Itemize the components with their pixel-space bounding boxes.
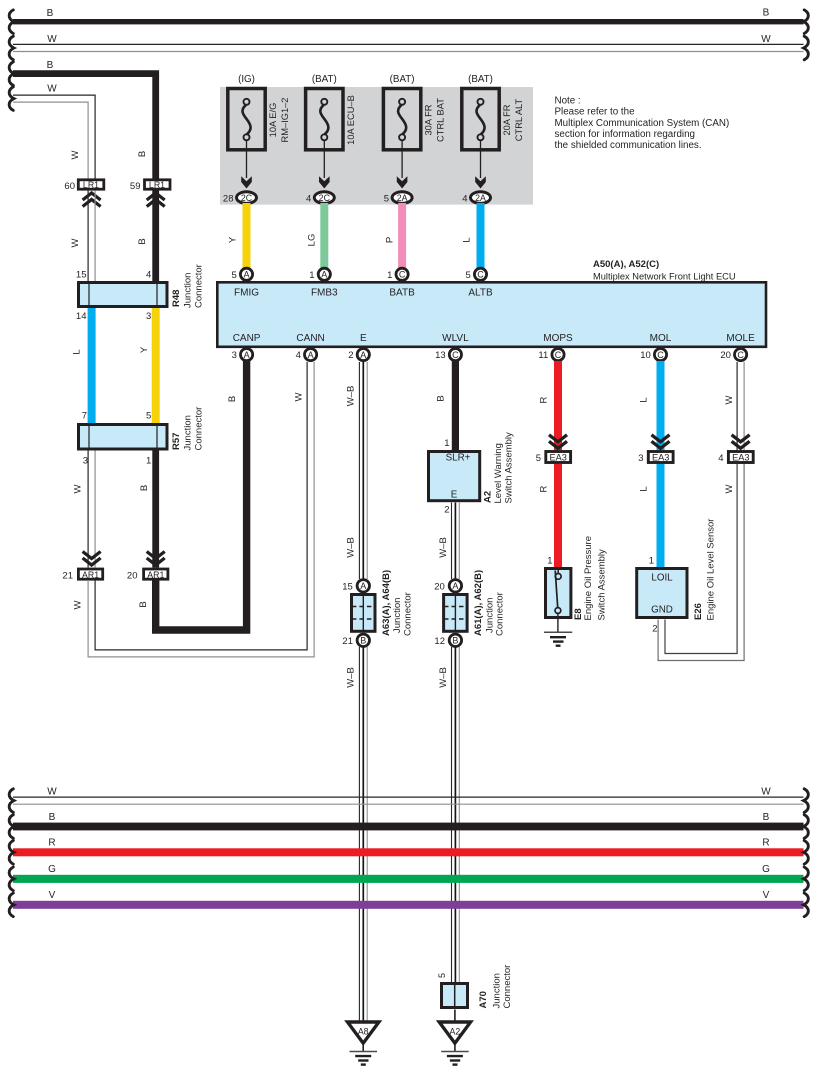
svg-text:2C: 2C xyxy=(319,193,331,203)
svg-text:B: B xyxy=(138,601,149,607)
svg-text:R: R xyxy=(762,838,769,849)
svg-text:Connector: Connector xyxy=(495,592,506,636)
svg-text:A2: A2 xyxy=(483,491,494,503)
level warning switch A2 SLR+ box xyxy=(429,432,515,504)
svg-text:MOLE: MOLE xyxy=(726,333,755,344)
page break squiggle B bus right xyxy=(804,10,809,34)
wire W to LR1 pin 60 xyxy=(13,84,95,180)
svg-text:A70: A70 xyxy=(478,991,489,1008)
connector EA3 pin 5 xyxy=(536,452,571,465)
svg-text:SLR+: SLR+ xyxy=(446,453,471,464)
connector AR1 pin 21 xyxy=(62,569,102,582)
svg-text:(BAT): (BAT) xyxy=(312,74,337,85)
terminal C MOL xyxy=(654,349,666,361)
svg-text:W–B: W–B xyxy=(438,537,449,558)
svg-text:L: L xyxy=(462,237,473,242)
svg-text:15: 15 xyxy=(76,270,87,281)
wire L from R48 to R57 xyxy=(88,308,96,423)
svg-text:20: 20 xyxy=(720,350,731,361)
svg-text:Switch Assembly: Switch Assembly xyxy=(504,432,515,504)
svg-text:2A: 2A xyxy=(475,193,486,203)
svg-text:W–B: W–B xyxy=(438,667,449,688)
wire B WLVL to SLR+ xyxy=(452,361,459,450)
svg-text:Connector: Connector xyxy=(194,264,205,308)
svg-text:V: V xyxy=(49,890,56,901)
svg-text:L: L xyxy=(72,349,83,354)
note text xyxy=(555,96,730,152)
svg-text:C: C xyxy=(399,270,406,280)
svg-text:R: R xyxy=(539,485,550,492)
svg-text:5: 5 xyxy=(466,270,471,281)
svg-text:(BAT): (BAT) xyxy=(468,74,493,85)
page break squiggle V bottom right xyxy=(804,893,809,917)
svg-text:A: A xyxy=(360,350,366,360)
svg-text:G: G xyxy=(762,864,770,875)
wire W EA3 to LOIL GND xyxy=(665,464,737,654)
page break squiggle W bus left xyxy=(9,36,14,60)
svg-text:MOL: MOL xyxy=(650,333,672,344)
svg-text:28: 28 xyxy=(223,193,234,204)
svg-text:10: 10 xyxy=(640,350,651,361)
wire W-B SLR+ to A61 xyxy=(451,503,453,580)
svg-text:CTRL ALT: CTRL ALT xyxy=(514,99,524,142)
ground symbol E8 xyxy=(544,632,572,645)
svg-text:E26: E26 xyxy=(693,603,704,620)
wire L fuse to ALTB xyxy=(477,203,485,268)
svg-text:section for information regard: section for information regarding xyxy=(555,129,696,140)
connector LR1 pin 59 xyxy=(130,180,170,192)
svg-text:B: B xyxy=(137,238,148,244)
svg-text:LOIL: LOIL xyxy=(651,573,673,584)
svg-text:2: 2 xyxy=(348,350,353,361)
svg-text:12: 12 xyxy=(434,636,445,647)
svg-text:LR1: LR1 xyxy=(149,180,165,190)
svg-text:60: 60 xyxy=(64,181,75,192)
svg-text:B: B xyxy=(47,8,54,19)
svg-text:A: A xyxy=(452,581,458,591)
junction connector R57 xyxy=(79,407,205,451)
wire B from R57 to AR1 pin 20 xyxy=(152,451,159,568)
svg-text:L: L xyxy=(639,486,650,491)
wire A70 to ground A2 xyxy=(454,1010,456,1021)
svg-text:C: C xyxy=(657,350,664,360)
fuse 10A E/G RM-IG1-2 (IG) xyxy=(223,74,290,204)
wire L EA3 to LOIL xyxy=(657,464,665,567)
svg-text:C: C xyxy=(737,350,744,360)
svg-text:15: 15 xyxy=(342,582,353,593)
svg-text:2C: 2C xyxy=(241,193,253,203)
svg-text:A: A xyxy=(243,270,249,280)
svg-text:Engine Oil Pressure: Engine Oil Pressure xyxy=(583,536,594,620)
svg-text:C: C xyxy=(477,270,484,280)
svg-text:A: A xyxy=(244,350,250,360)
svg-text:W: W xyxy=(724,395,735,404)
page break squiggle B bus left xyxy=(9,10,14,34)
ground symbol A8 xyxy=(350,1044,378,1065)
svg-text:B: B xyxy=(139,485,150,491)
svg-text:WLVL: WLVL xyxy=(442,333,469,344)
svg-text:W: W xyxy=(73,484,84,493)
terminal B A63 xyxy=(357,634,369,646)
wire W top bus xyxy=(13,34,804,52)
svg-text:R48: R48 xyxy=(171,290,182,307)
page break squiggle W bottom right xyxy=(804,789,809,813)
wire L MOL to EA3 xyxy=(657,361,665,450)
svg-text:21: 21 xyxy=(342,636,353,647)
connector LR1 pin 60 xyxy=(64,180,103,192)
svg-text:W–B: W–B xyxy=(346,667,357,688)
wire W from R57 to AR1 pin 21 xyxy=(87,451,89,568)
svg-text:EA3: EA3 xyxy=(652,453,669,463)
svg-text:RM–IG1–2: RM–IG1–2 xyxy=(280,98,290,143)
junction connector R48 xyxy=(79,264,205,308)
svg-text:A50(A), A52(C): A50(A), A52(C) xyxy=(593,259,659,270)
svg-text:21: 21 xyxy=(62,571,73,582)
svg-text:20A FR: 20A FR xyxy=(502,104,512,135)
page break squiggle V bottom left xyxy=(9,893,14,917)
svg-text:A: A xyxy=(360,581,366,591)
svg-text:3: 3 xyxy=(638,453,643,464)
svg-text:A8: A8 xyxy=(358,1027,369,1037)
wire R bottom bus xyxy=(13,838,804,857)
svg-text:W: W xyxy=(70,238,81,247)
svg-text:A2: A2 xyxy=(450,1027,461,1037)
wire B U-path from AR1 20 to CANP xyxy=(156,361,247,630)
svg-text:CANN: CANN xyxy=(296,333,324,344)
page break squiggle R bottom left xyxy=(9,841,14,865)
svg-text:Multiplex Communication System: Multiplex Communication System (CAN) xyxy=(555,118,730,129)
chevron arrows LR1 59 xyxy=(147,193,165,200)
svg-text:Connector: Connector xyxy=(502,965,513,1009)
fuse 10A ECU-B (BAT) xyxy=(306,74,356,204)
svg-text:CTRL BAT: CTRL BAT xyxy=(436,98,446,142)
svg-text:13: 13 xyxy=(435,350,446,361)
connector EA3 pin 4 xyxy=(718,452,753,465)
wire W bottom bus xyxy=(13,787,804,805)
svg-text:AR1: AR1 xyxy=(147,570,164,580)
svg-text:2: 2 xyxy=(444,505,449,516)
terminal C BATB xyxy=(396,268,408,280)
svg-text:Y: Y xyxy=(139,346,150,353)
terminal A CANN xyxy=(305,349,317,361)
svg-text:EA3: EA3 xyxy=(550,453,567,463)
svg-text:5: 5 xyxy=(146,411,151,422)
connector EA3 pin 3 xyxy=(638,452,673,465)
svg-text:A63(A), A64(B): A63(A), A64(B) xyxy=(381,570,392,636)
svg-text:A: A xyxy=(321,270,327,280)
svg-text:Connector: Connector xyxy=(402,592,413,636)
wire W-B E to A63 xyxy=(358,362,360,579)
svg-text:W: W xyxy=(70,150,81,159)
wire B bottom bus xyxy=(13,812,804,830)
svg-text:W–B: W–B xyxy=(346,537,357,558)
page break squiggle G bottom left xyxy=(9,867,14,891)
svg-text:MOPS: MOPS xyxy=(543,333,573,344)
svg-text:20: 20 xyxy=(434,582,445,593)
svg-text:10A ECU–B: 10A ECU–B xyxy=(346,95,356,145)
svg-text:W: W xyxy=(47,787,57,798)
terminal A E xyxy=(357,349,369,361)
svg-text:Junction: Junction xyxy=(183,273,194,308)
page break squiggle R bottom right xyxy=(804,841,809,865)
svg-text:GND: GND xyxy=(651,605,673,616)
svg-text:(BAT): (BAT) xyxy=(390,74,415,85)
svg-text:W: W xyxy=(294,392,305,401)
svg-text:W: W xyxy=(47,34,57,45)
svg-text:C: C xyxy=(555,350,562,360)
wire W from LR1 to R48 pin 15 xyxy=(87,191,89,282)
svg-text:5: 5 xyxy=(437,973,447,978)
page break squiggle W left xyxy=(9,87,14,111)
svg-text:C: C xyxy=(452,350,459,360)
svg-text:W: W xyxy=(761,787,771,798)
wire B to LR1 pin 59 xyxy=(13,60,156,179)
chevron arrows EA3 4 xyxy=(732,435,750,442)
fuse block background xyxy=(220,87,533,205)
svg-text:Connector: Connector xyxy=(194,407,205,451)
svg-text:P: P xyxy=(385,237,396,243)
svg-text:CANP: CANP xyxy=(233,333,261,344)
svg-text:R: R xyxy=(48,838,55,849)
svg-text:59: 59 xyxy=(130,181,141,192)
svg-text:5: 5 xyxy=(536,453,541,464)
wire R EA3 to E8 xyxy=(554,464,562,567)
chevron arrows EA3 5 xyxy=(549,435,567,442)
wire W MOLE to EA3 xyxy=(736,362,738,450)
svg-text:20: 20 xyxy=(127,571,138,582)
terminal A FMB3 xyxy=(318,268,330,280)
svg-text:1: 1 xyxy=(309,270,314,281)
terminal C WLVL xyxy=(449,349,461,361)
terminal A FMIG xyxy=(240,268,252,280)
wire W-B A61 to A70 xyxy=(451,647,453,982)
page break squiggle B bottom left xyxy=(9,815,14,839)
chevron arrows AR1 20 xyxy=(147,552,165,559)
engine oil level sensor E26 box xyxy=(637,519,717,621)
terminal C MOLE xyxy=(735,349,747,361)
svg-text:Y: Y xyxy=(228,236,239,243)
svg-text:LG: LG xyxy=(307,234,318,247)
svg-text:EA3: EA3 xyxy=(732,453,749,463)
chevron arrows LR1 60 xyxy=(83,193,101,200)
terminal B A61 xyxy=(449,634,461,646)
ground symbol A2 xyxy=(441,1044,469,1065)
svg-text:11: 11 xyxy=(538,350,548,361)
svg-text:FMIG: FMIG xyxy=(234,288,259,299)
svg-text:LR1: LR1 xyxy=(83,180,99,190)
wire G bottom bus xyxy=(13,864,804,883)
terminal A CANP xyxy=(241,349,253,361)
connector AR1 pin 20 xyxy=(127,569,168,582)
svg-text:1: 1 xyxy=(444,438,449,449)
svg-text:3: 3 xyxy=(83,456,88,467)
svg-text:ALTB: ALTB xyxy=(468,288,493,299)
svg-text:1: 1 xyxy=(146,456,151,467)
svg-text:2A: 2A xyxy=(397,193,408,203)
wire P fuse to BATB xyxy=(398,203,406,268)
wire Y from R48 to R57 xyxy=(152,308,160,423)
ECU A50(A) A52(C) Multiplex Network Front Light ECU xyxy=(217,259,766,347)
svg-text:Multiplex Network Front Light: Multiplex Network Front Light ECU xyxy=(593,272,736,282)
svg-text:Junction: Junction xyxy=(492,973,503,1008)
svg-text:2: 2 xyxy=(652,624,657,635)
ground triangle A8 xyxy=(348,1022,379,1043)
svg-text:A: A xyxy=(308,350,314,360)
svg-text:B: B xyxy=(452,636,458,646)
svg-text:W: W xyxy=(47,84,57,95)
svg-text:4: 4 xyxy=(296,350,301,361)
svg-text:R: R xyxy=(539,396,550,403)
svg-text:5: 5 xyxy=(384,193,389,204)
svg-text:E: E xyxy=(360,333,367,344)
svg-text:10A E/G: 10A E/G xyxy=(268,103,278,138)
junction connector A63(A) A64(B) xyxy=(352,570,414,636)
wire W-B A63 to ground A8 xyxy=(358,647,360,1021)
svg-text:B: B xyxy=(137,151,148,157)
page break squiggle W bus right xyxy=(804,36,809,60)
svg-text:L: L xyxy=(639,397,650,402)
svg-text:G: G xyxy=(48,864,56,875)
svg-text:1: 1 xyxy=(387,270,392,281)
svg-text:4: 4 xyxy=(306,193,311,204)
svg-text:V: V xyxy=(763,890,770,901)
junction connector A61(A) A62(B) xyxy=(444,570,506,636)
svg-text:1: 1 xyxy=(547,556,552,567)
wire V bottom bus xyxy=(13,890,804,909)
svg-text:14: 14 xyxy=(76,311,87,322)
wire R MOPS to EA3 xyxy=(554,361,562,450)
ground triangle A2 xyxy=(439,1022,470,1043)
fuse 30A FR CTRL BAT (BAT) xyxy=(383,74,445,204)
terminal A A63 xyxy=(357,580,369,592)
page break squiggle B bottom right xyxy=(804,815,809,839)
terminal A A61 xyxy=(449,580,461,592)
svg-text:B: B xyxy=(763,8,770,19)
svg-text:W–B: W–B xyxy=(346,386,357,407)
svg-text:Note :: Note : xyxy=(555,96,581,107)
wire Y fuse to FMIG xyxy=(243,203,251,268)
svg-text:E: E xyxy=(451,490,458,501)
svg-text:Please refer to the: Please refer to the xyxy=(555,107,636,118)
svg-text:Level Warning: Level Warning xyxy=(493,443,504,503)
svg-text:the shielded communication lin: the shielded communication lines. xyxy=(555,140,702,151)
svg-text:Junction: Junction xyxy=(183,415,194,450)
svg-text:(IG): (IG) xyxy=(238,74,255,85)
svg-text:B: B xyxy=(49,812,56,823)
wire W path from AR1 21 to CANN xyxy=(95,362,307,650)
svg-text:BATB: BATB xyxy=(389,288,415,299)
terminal C ALTB xyxy=(474,268,486,280)
engine oil pressure switch E8 box xyxy=(546,536,608,632)
svg-text:3: 3 xyxy=(232,350,237,361)
svg-text:3: 3 xyxy=(146,311,151,322)
svg-text:B: B xyxy=(763,812,770,823)
svg-text:W: W xyxy=(73,600,84,609)
svg-text:Switch Assembly: Switch Assembly xyxy=(597,549,608,621)
svg-text:1: 1 xyxy=(649,556,654,567)
wire LG fuse to FMB3 xyxy=(320,203,328,268)
wire B from LR1 to R48 pin 4 xyxy=(152,191,159,282)
svg-text:AR1: AR1 xyxy=(82,570,99,580)
svg-text:FMB3: FMB3 xyxy=(311,288,338,299)
svg-text:B: B xyxy=(227,396,238,402)
page break squiggle W bottom left xyxy=(9,789,14,813)
svg-text:4: 4 xyxy=(146,270,151,281)
svg-text:4: 4 xyxy=(462,193,467,204)
terminal C MOPS xyxy=(552,349,564,361)
junction connector A70 xyxy=(442,965,514,1009)
svg-text:7: 7 xyxy=(82,411,87,422)
svg-text:B: B xyxy=(47,60,54,71)
page break squiggle B left xyxy=(9,62,14,86)
svg-text:B: B xyxy=(436,395,447,401)
wire B top bus 1 xyxy=(13,8,804,25)
svg-text:A61(A), A62(B): A61(A), A62(B) xyxy=(473,570,484,636)
svg-text:5: 5 xyxy=(232,270,237,281)
svg-text:W: W xyxy=(761,34,771,45)
page break squiggle G bottom right xyxy=(804,867,809,891)
svg-text:W: W xyxy=(724,484,735,493)
svg-text:Engine Oil Level Sensor: Engine Oil Level Sensor xyxy=(706,519,717,621)
fuse 20A FR CTRL ALT (BAT) xyxy=(462,74,524,204)
svg-text:30A FR: 30A FR xyxy=(424,104,434,135)
chevron arrows AR1 21 xyxy=(83,552,101,559)
chevron arrows EA3 3 xyxy=(652,435,670,442)
svg-text:B: B xyxy=(360,636,366,646)
svg-text:4: 4 xyxy=(718,453,723,464)
svg-text:R57: R57 xyxy=(171,433,182,450)
